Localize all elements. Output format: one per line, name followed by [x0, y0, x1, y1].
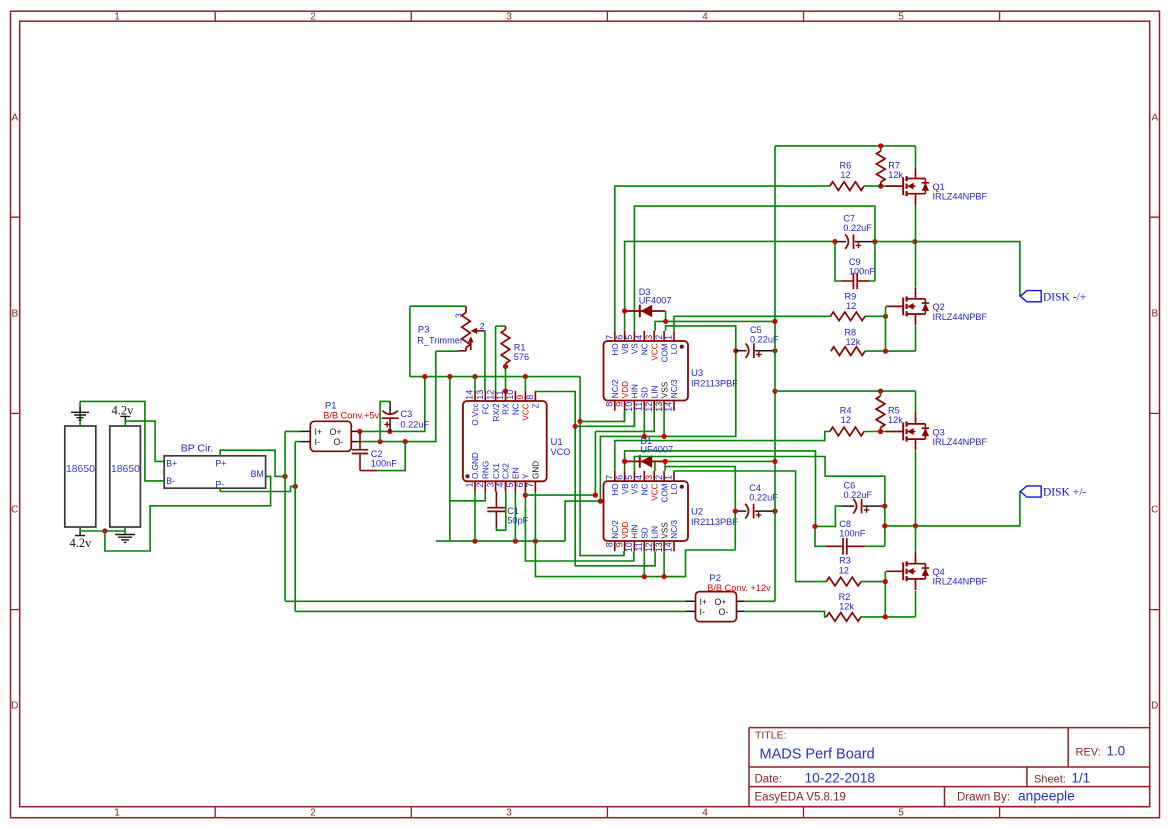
svg-text:I+: I+: [700, 597, 708, 607]
wire U3 HO to R6: [615, 186, 830, 331]
junction: [878, 429, 883, 434]
svg-text:3: 3: [485, 483, 495, 488]
junction: [387, 429, 392, 434]
svg-text:anpeeple: anpeeple: [1018, 788, 1075, 803]
wire +12V COM rail: [775, 146, 916, 601]
svg-text:10: 10: [624, 402, 634, 412]
svg-text:O.GND: O.GND: [471, 452, 480, 479]
svg-text:LIN: LIN: [650, 526, 659, 539]
junction: [913, 523, 918, 528]
svg-text:14: 14: [664, 402, 674, 412]
svg-text:R7: R7: [888, 160, 900, 170]
svg-text:COM: COM: [660, 483, 669, 502]
svg-text:NC: NC: [512, 403, 521, 415]
wire C9 loop right: [869, 242, 875, 281]
svg-text:576: 576: [514, 352, 529, 362]
svg-text:13: 13: [654, 402, 664, 412]
svg-text:C9: C9: [849, 257, 861, 267]
wire: [474, 377, 476, 391]
svg-text:GND: GND: [532, 461, 541, 479]
junction: [772, 509, 777, 514]
svg-text:LO: LO: [670, 343, 679, 354]
svg-text:14: 14: [664, 542, 674, 552]
svg-text:HO: HO: [611, 343, 620, 355]
svg-text:7: 7: [605, 335, 615, 340]
svg-text:4: 4: [702, 11, 708, 22]
wire: [484, 331, 486, 391]
resistor R1 576: [496, 326, 530, 366]
svg-text:R3: R3: [839, 556, 851, 566]
junction: [642, 574, 647, 579]
wire +5V to VDD rail: [580, 377, 624, 556]
junction: [622, 308, 627, 313]
svg-text:8: 8: [525, 395, 535, 400]
svg-text:2: 2: [654, 335, 664, 340]
junction: [772, 389, 777, 394]
junction: [533, 539, 538, 544]
wire GND bus under U1: [436, 377, 565, 541]
svg-text:O-: O-: [334, 437, 344, 447]
svg-text:DISK +/-: DISK +/-: [1043, 487, 1086, 499]
svg-text:4: 4: [634, 475, 644, 480]
junction: [832, 239, 837, 244]
svg-text:C2: C2: [371, 449, 383, 459]
wire P-: [220, 486, 295, 491]
svg-text:11: 11: [634, 542, 644, 551]
svg-text:NC/2: NC/2: [611, 520, 620, 539]
svg-text:A: A: [1151, 113, 1158, 124]
op-amp U1 VCO: [463, 390, 547, 492]
junction: [663, 319, 668, 324]
wire U2 HO line to R4: [615, 432, 830, 471]
junction: [472, 374, 477, 379]
pin1 marker U1: [465, 474, 469, 478]
battery BT1 18650: [65, 426, 96, 527]
svg-text:Date:: Date:: [755, 773, 783, 785]
junction: [503, 364, 508, 369]
svg-text:3: 3: [644, 335, 654, 340]
svg-text:VB: VB: [621, 483, 630, 494]
svg-text:B+: B+: [166, 459, 177, 469]
wire: [864, 431, 887, 433]
svg-text:5: 5: [898, 11, 904, 22]
diode D3 UF4007: [625, 287, 672, 317]
svg-text:R5: R5: [888, 406, 900, 416]
wire Q2 drain to phase node: [915, 242, 917, 287]
svg-text:12: 12: [644, 402, 654, 412]
capacitor C2 100nF: [352, 431, 397, 470]
svg-text:I+: I+: [315, 427, 323, 437]
svg-text:O+: O+: [715, 597, 727, 607]
wire net I- (to P1 and P2): [295, 442, 685, 612]
wire R2 right / Q4 source: [861, 591, 916, 617]
svg-text:8: 8: [605, 402, 615, 407]
wire +12V branch to R5/Q3: [775, 391, 916, 413]
svg-text:2: 2: [310, 808, 316, 819]
wire: [865, 315, 886, 317]
svg-text:2: 2: [310, 11, 316, 22]
svg-text:TITLE:: TITLE:: [755, 730, 787, 742]
wire net I+ (to P1 and P2): [285, 431, 685, 601]
wire: [524, 377, 526, 391]
junction: [772, 348, 777, 353]
svg-text:9: 9: [515, 395, 525, 400]
svg-text:2: 2: [475, 483, 485, 488]
svg-text:C1: C1: [507, 506, 519, 516]
svg-text:1/1: 1/1: [1072, 770, 1091, 785]
svg-text:IR2113PBF: IR2113PBF: [691, 379, 738, 389]
svg-text:FC: FC: [482, 403, 491, 414]
wire Q1 source to phase node: [915, 205, 917, 242]
wire U3 VS line: [634, 206, 875, 331]
svg-text:COM: COM: [660, 343, 669, 362]
svg-text:P3: P3: [418, 324, 430, 335]
wire GND link to VSS net: [565, 501, 600, 541]
junction: [733, 509, 738, 514]
svg-text:VSS: VSS: [660, 522, 669, 539]
svg-text:B-: B-: [166, 476, 175, 486]
svg-text:I-: I-: [315, 437, 320, 447]
svg-text:13: 13: [475, 390, 485, 400]
resistor R4 12: [830, 406, 864, 436]
svg-text:NC: NC: [641, 343, 650, 355]
svg-text:P-: P-: [215, 479, 224, 489]
svg-text:4: 4: [495, 483, 505, 488]
svg-text:Q4: Q4: [933, 567, 945, 577]
svg-text:HIN: HIN: [631, 384, 640, 398]
svg-text:RNG: RNG: [482, 461, 491, 479]
svg-text:VS: VS: [631, 483, 640, 494]
wire pin2 RNG: [450, 492, 485, 501]
svg-text:EasyEDA V5.8.19: EasyEDA V5.8.19: [755, 791, 846, 803]
svg-text:100nF: 100nF: [839, 529, 865, 539]
svg-text:CX1: CX1: [492, 463, 501, 479]
svg-text:12k: 12k: [888, 170, 903, 180]
svg-text:LO: LO: [670, 483, 679, 494]
svg-text:4: 4: [634, 335, 644, 340]
wire U2 VS line: [634, 457, 884, 507]
wire phase1 to DISK -/+: [875, 242, 1020, 297]
svg-text:5: 5: [505, 483, 515, 488]
svg-text:VCO: VCO: [551, 447, 571, 457]
wire Q3 source to phase2: [915, 451, 917, 526]
svg-text:EN: EN: [512, 468, 521, 479]
trimmer P3 R_Trimmer: [417, 306, 485, 351]
svg-text:A: A: [11, 113, 18, 124]
wire BT2+ to B+: [125, 421, 164, 461]
svg-text:6: 6: [614, 335, 624, 340]
svg-text:SD: SD: [641, 527, 650, 538]
wire U2 LO to R3: [674, 471, 826, 582]
junction: [662, 574, 667, 579]
wire SD/VSS net U2: [535, 511, 735, 576]
wire SD/VSS net U3: [600, 351, 735, 501]
svg-text:0.22uF: 0.22uF: [749, 493, 778, 503]
svg-text:2: 2: [654, 475, 664, 480]
junction: [733, 348, 738, 353]
junction: [883, 349, 888, 354]
svg-text:1: 1: [114, 11, 120, 22]
wire U2 COM to C4 left: [665, 467, 735, 512]
junction: [663, 459, 668, 464]
svg-text:0.22uF: 0.22uF: [844, 490, 873, 500]
svg-text:11: 11: [634, 402, 644, 411]
junction: [883, 614, 888, 619]
svg-text:12: 12: [840, 170, 850, 180]
svg-text:R9: R9: [845, 292, 857, 302]
junction: [883, 579, 888, 584]
wire P2 O+ to +12V rail: [745, 600, 775, 602]
wire net Z branch to U3 HIN: [575, 411, 634, 427]
svg-text:R6: R6: [840, 160, 852, 170]
svg-text:VDD: VDD: [621, 381, 630, 398]
wire: [124, 527, 126, 535]
junction: [772, 459, 777, 464]
svg-text:IRLZ44NPBF: IRLZ44NPBF: [933, 437, 988, 447]
svg-text:B: B: [1151, 309, 1158, 320]
svg-text:10-22-2018: 10-22-2018: [805, 770, 876, 785]
svg-text:5: 5: [624, 335, 634, 340]
transistor Q1 IRLZ44NPBF: [886, 167, 987, 205]
wire U3 VB line: [625, 241, 835, 330]
svg-text:R8: R8: [844, 328, 856, 338]
svg-text:C: C: [1151, 505, 1158, 516]
svg-text:U3: U3: [691, 368, 703, 379]
svg-text:2: 2: [480, 321, 485, 331]
wire U2 COM/D1 line: [655, 461, 775, 471]
svg-text:12k: 12k: [846, 337, 861, 347]
wire: [624, 411, 626, 422]
wire: [665, 311, 667, 321]
svg-text:18650: 18650: [66, 464, 95, 475]
svg-text:HIN: HIN: [631, 525, 640, 539]
net label 4.2v (top): [112, 403, 135, 421]
junction: [283, 474, 288, 479]
wire: [79, 401, 81, 426]
junction: [523, 374, 528, 379]
wire C1 return to pin4: [496, 492, 505, 531]
junction: [447, 374, 452, 379]
wire: [474, 492, 476, 542]
transistor Q3 IRLZ44NPBF: [886, 413, 987, 451]
wire C2 bottom return: [360, 470, 377, 472]
svg-text:NC/3: NC/3: [670, 520, 679, 539]
svg-text:100nF: 100nF: [371, 458, 397, 468]
junction: [357, 429, 362, 434]
junction: [878, 389, 883, 394]
svg-text:5: 5: [624, 475, 634, 480]
svg-text:REV:: REV:: [1076, 747, 1101, 759]
wire R3 right / Q4 gate: [861, 571, 885, 617]
svg-text:7: 7: [605, 475, 615, 480]
wire battery bottom link: [80, 530, 125, 532]
junction: [642, 434, 647, 439]
svg-text:B/B Conv. +12v: B/B Conv. +12v: [707, 583, 771, 593]
pin1 marker U2: [680, 485, 684, 489]
svg-text:3: 3: [506, 808, 512, 819]
wire phase2 line to DISK +/-: [885, 492, 1020, 526]
junction: [422, 374, 427, 379]
junction: [912, 239, 917, 244]
svg-text:SD: SD: [641, 387, 650, 398]
svg-text:R1: R1: [514, 342, 526, 352]
junction: [503, 388, 508, 393]
wire Q4 drain riser: [915, 526, 917, 553]
svg-text:VS: VS: [631, 343, 640, 354]
svg-text:1: 1: [465, 483, 475, 488]
svg-text:Z: Z: [532, 403, 541, 408]
resistor R6 12: [830, 160, 864, 190]
capacitor C1 50pF: [487, 492, 528, 528]
junction: [378, 439, 383, 444]
wire U2 VB line: [625, 451, 816, 527]
resistor R7 12k: [877, 146, 904, 186]
wire C3 top loop: [380, 401, 390, 441]
svg-text:11: 11: [495, 390, 505, 399]
svg-text:C5: C5: [750, 325, 762, 335]
wire +5V rail: [410, 306, 580, 376]
svg-text:5: 5: [898, 808, 904, 819]
wire: [436, 350, 459, 352]
svg-text:RX: RX: [502, 403, 511, 415]
svg-text:100nF: 100nF: [849, 266, 875, 276]
svg-text:D: D: [11, 701, 18, 712]
junction: [872, 239, 877, 244]
svg-text:RX/2: RX/2: [492, 403, 501, 422]
svg-text:IR2113PBF: IR2113PBF: [691, 517, 738, 527]
junction: [523, 493, 528, 498]
svg-text:3: 3: [454, 313, 464, 318]
ground below BT2: [115, 535, 135, 543]
svg-text:R_Trimmer: R_Trimmer: [417, 335, 463, 345]
svg-text:10: 10: [624, 542, 634, 552]
svg-text:R2: R2: [839, 592, 851, 602]
junction: [882, 523, 887, 528]
junction: [622, 459, 627, 464]
svg-text:VSS: VSS: [660, 381, 669, 398]
svg-text:12k: 12k: [839, 602, 854, 612]
svg-text:18650: 18650: [111, 464, 140, 475]
wire U3 COM to C5 left: [666, 326, 736, 351]
svg-text:VCC: VCC: [650, 343, 659, 360]
svg-text:14: 14: [465, 390, 475, 400]
wire: [633, 411, 635, 427]
svg-text:12: 12: [485, 390, 495, 400]
svg-text:C4: C4: [749, 483, 761, 493]
wire net Y branch to U3 LIN: [525, 411, 654, 495]
capacitor C5 0.22uF: [736, 325, 779, 358]
battery BT2 18650: [110, 426, 141, 527]
svg-text:VCC: VCC: [522, 403, 531, 420]
net label 4.2v (bottom): [70, 531, 93, 549]
junction: [593, 493, 598, 498]
svg-text:Q1: Q1: [933, 182, 945, 192]
wire: [79, 527, 81, 532]
junction: [293, 484, 298, 489]
svg-text:1: 1: [114, 808, 120, 819]
svg-text:B/B Conv.+5v: B/B Conv.+5v: [323, 411, 379, 421]
svg-text:DISK -/+: DISK -/+: [1043, 291, 1086, 303]
capacitor C9 100nF: [841, 257, 875, 289]
svg-text:13: 13: [654, 542, 664, 552]
net port DISK -/+: [1020, 291, 1086, 304]
svg-text:IRLZ44NPBF: IRLZ44NPBF: [933, 192, 988, 202]
svg-text:VB: VB: [621, 343, 630, 354]
svg-text:0.22uF: 0.22uF: [843, 223, 872, 233]
svg-text:BP Cir.: BP Cir.: [181, 442, 213, 454]
svg-text:IRLZ44NPBF: IRLZ44NPBF: [933, 312, 988, 322]
svg-text:UF4007: UF4007: [639, 296, 672, 306]
wire U3 LO to R9: [674, 316, 830, 331]
transistor Q2 IRLZ44NPBF: [886, 287, 987, 325]
junction: [573, 424, 578, 429]
junction: [403, 439, 408, 444]
svg-text:LIN: LIN: [650, 385, 659, 398]
resistor R9 12: [830, 292, 865, 321]
capacitor C7 0.22uF: [835, 214, 875, 249]
wire VB2 node: [815, 506, 842, 546]
svg-text:10: 10: [505, 390, 515, 400]
junction: [102, 528, 107, 533]
wire: [514, 492, 516, 542]
svg-text:C6: C6: [844, 481, 856, 491]
svg-text:B: B: [11, 309, 18, 320]
svg-text:4.2v: 4.2v: [70, 536, 93, 550]
svg-text:NC/2: NC/2: [611, 379, 620, 398]
svg-text:9: 9: [614, 402, 624, 407]
wire: [534, 492, 536, 542]
svg-text:8: 8: [605, 542, 615, 547]
svg-text:3: 3: [644, 475, 654, 480]
svg-text:C7: C7: [843, 214, 855, 224]
resistor R5 12k: [876, 391, 903, 431]
svg-text:NC/3: NC/3: [670, 379, 679, 398]
wire Q2 gate riser: [885, 306, 887, 316]
wire R1 top from pin12: [495, 326, 497, 391]
svg-text:O.Vcc: O.Vcc: [471, 403, 480, 425]
resistor R3 12: [826, 556, 861, 586]
svg-text:O-: O-: [719, 607, 729, 617]
svg-text:P+: P+: [215, 459, 226, 469]
wire C8 right riser: [865, 506, 885, 546]
junction: [878, 184, 883, 189]
svg-text:9: 9: [614, 542, 624, 547]
svg-text:1.0: 1.0: [1107, 744, 1126, 759]
svg-text:4.2v: 4.2v: [112, 403, 135, 417]
svg-text:Y: Y: [522, 473, 531, 479]
svg-text:3: 3: [506, 11, 512, 22]
wire P+: [220, 450, 285, 476]
gate driver U3 IR2113PBF: [604, 331, 689, 412]
svg-text:IRLZ44NPBF: IRLZ44NPBF: [933, 577, 988, 587]
capacitor C6 0.22uF: [842, 481, 885, 514]
junction: [662, 434, 667, 439]
svg-text:7: 7: [525, 483, 535, 488]
svg-text:12: 12: [839, 565, 849, 575]
svg-text:1: 1: [664, 475, 674, 480]
wire VDD branch to U3: [580, 411, 624, 422]
junction: [882, 504, 887, 509]
junction: [598, 499, 603, 504]
capacitor C4 0.22uF: [735, 483, 778, 518]
svg-text:VCC: VCC: [650, 483, 659, 500]
module P2 B/B Conv. +12v: [686, 573, 772, 621]
wire net Y: [525, 492, 633, 562]
svg-text:MADS Perf Board: MADS Perf Board: [760, 747, 875, 763]
svg-text:VDD: VDD: [621, 521, 630, 538]
svg-text:HO: HO: [611, 483, 620, 495]
wire: [864, 185, 887, 187]
